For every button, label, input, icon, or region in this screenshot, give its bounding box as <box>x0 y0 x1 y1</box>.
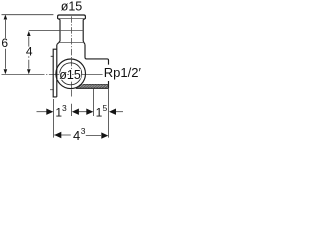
svg-text:Rp1/2″: Rp1/2″ <box>104 65 141 80</box>
row2 arrow left at x54.3 <box>54 132 61 138</box>
body right wall down to thread socket corner <box>85 44 109 60</box>
row1 arrow left at x109 <box>109 109 116 115</box>
row1 arrow left at x71.9 <box>72 109 79 115</box>
svg-text:ø15: ø15 <box>59 68 81 82</box>
extension line thread start x93.5 <box>93 89 95 116</box>
bead bottom line <box>58 18 85 20</box>
extension line right face x108.5 <box>108 88 110 137</box>
thread hatching <box>77 85 109 89</box>
bead tick upper (front socket behind plate) <box>51 55 54 57</box>
svg-text:4: 4 <box>73 128 80 143</box>
shoulder flare right <box>83 41 85 44</box>
press socket top (ø15) outline <box>58 15 86 41</box>
svg-text:3: 3 <box>62 103 67 113</box>
dim 4 arrow up <box>27 31 31 36</box>
shoulder flare left <box>57 41 60 44</box>
extension line flange face x53.4 <box>52 99 54 138</box>
row1 arrow right at x53.3 <box>46 109 53 115</box>
svg-text:4: 4 <box>26 45 33 59</box>
arrowheads <box>4 15 116 139</box>
thread socket bottom edge <box>76 87 109 89</box>
node H-centerline (horizontal axis dash-dot) <box>2 73 103 75</box>
dimension 4 extension line <box>29 30 60 32</box>
svg-text:6: 6 <box>1 36 8 50</box>
thread band top line <box>83 83 109 85</box>
pipe stop line <box>60 30 83 32</box>
svg-text:ø15: ø15 <box>61 0 83 13</box>
bottom row1 dim line middle (shared tail) <box>78 111 88 113</box>
dim 6 arrow down <box>4 69 8 74</box>
bottom row1 dim line right (1.5 tail) <box>115 111 124 113</box>
extension line centerline x71.4 <box>70 104 72 116</box>
bead tick lower (front socket behind plate) <box>50 89 54 91</box>
dimension 6 top extension line <box>2 14 54 16</box>
svg-text:3: 3 <box>81 126 86 136</box>
svg-text:5: 5 <box>103 103 108 113</box>
dim 4 arrow down <box>27 69 31 74</box>
dimension 6 line <box>4 20 6 69</box>
body left wall / plate right edge <box>56 44 58 97</box>
bottom row2 dim line (4.3) <box>54 134 101 136</box>
socket front view inner circle <box>60 63 82 85</box>
dimension 4 line <box>28 36 30 68</box>
wire <box>2 15 124 138</box>
row2 arrow right at x108.3 <box>101 132 108 138</box>
dim 6 arrow up <box>4 15 8 20</box>
row1 arrow right at x93.3 <box>86 109 93 115</box>
interior shoulder line <box>58 42 84 44</box>
socket front view outer circle <box>56 59 86 89</box>
bottom row1 dim line left (1.3) <box>37 111 47 113</box>
node V-centerline (vertical axis dash-dot) <box>70 16 72 89</box>
flange plate <box>53 49 57 97</box>
thread socket right face Rp1/2 <box>108 60 110 88</box>
